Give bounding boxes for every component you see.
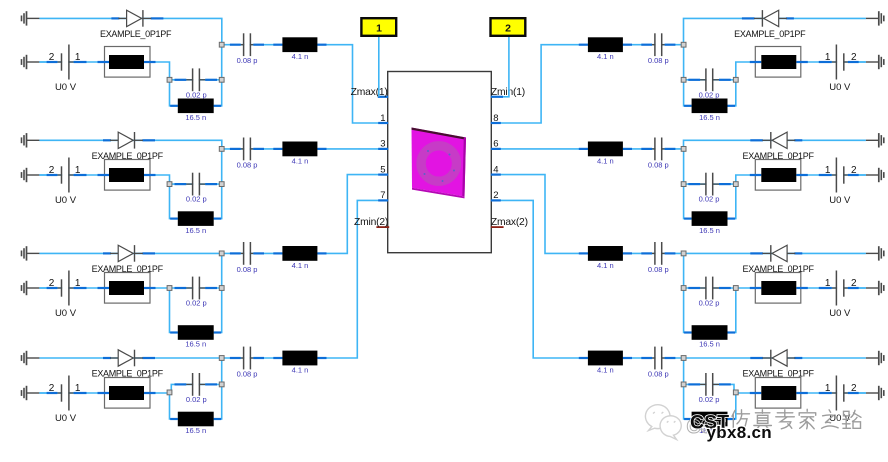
svg-text:0.02 p: 0.02 p xyxy=(186,299,207,308)
shunt inductor 16.5n row 2 left pin stub xyxy=(214,218,222,220)
capacitor 0.08p row 1 left xyxy=(230,33,264,56)
ground row 2 left battery branch xyxy=(22,168,40,182)
series block row 2 right pin stub right xyxy=(750,174,762,176)
battery pin stub row 2 right xyxy=(819,174,832,176)
series inductor 4.1n row 2 right pin stub xyxy=(623,148,632,150)
series inductor 4.1n row 1 right pin stub xyxy=(623,44,632,46)
svg-text:1: 1 xyxy=(376,22,382,34)
wire battery branch row 1 right xyxy=(736,62,866,80)
series block row 3 right pin stub right xyxy=(750,287,762,289)
svg-text:4.1 n: 4.1 n xyxy=(292,52,309,61)
svg-text:0.02 p: 0.02 p xyxy=(186,90,207,99)
junction node row 4 right xyxy=(681,356,686,361)
svg-text:0.08 p: 0.08 p xyxy=(648,56,669,65)
shunt inductor 16.5n row 4 right pin stub xyxy=(684,418,692,420)
series block row 4 right pin stub left xyxy=(796,392,808,394)
svg-text:ybx8.cn: ybx8.cn xyxy=(707,423,772,442)
wire diode branch row 1 left xyxy=(39,18,221,44)
series inductor 4.1n row 1 left pin stub xyxy=(317,44,326,46)
diode D EXAMPLE_0P1PF row 3 left xyxy=(103,245,155,262)
series block row 2 left body xyxy=(109,168,144,182)
series inductor 4.1n row 4 right pin stub xyxy=(623,357,632,359)
junction node row 3 right xyxy=(733,286,738,291)
block pin stub 2 right xyxy=(491,199,501,201)
capacitor 0.02p row 2 right xyxy=(688,173,731,196)
block pin stub Zmax(1) xyxy=(378,96,388,98)
wire column row 4 left xyxy=(214,358,222,419)
svg-text:EXAMPLE_0P1PF: EXAMPLE_0P1PF xyxy=(100,29,172,39)
series block row 2 right pin stub left xyxy=(796,174,808,176)
block pin stub 3 left xyxy=(378,148,388,150)
svg-text:4.1 n: 4.1 n xyxy=(597,156,614,165)
voltage source U0 row 4 right xyxy=(832,376,848,411)
series block row 2 right body xyxy=(761,168,796,182)
battery pin stub row 2 left xyxy=(74,174,87,176)
svg-text:16.5 n: 16.5 n xyxy=(185,226,206,235)
svg-text:U0 V: U0 V xyxy=(829,82,851,93)
shunt inductor 16.5n row 2 right pin stub xyxy=(728,218,736,220)
shunt inductor 16.5n row 2 left pin stub xyxy=(170,218,178,220)
series block row 1 left body xyxy=(109,55,144,69)
shunt inductor 16.5n row 2 right body xyxy=(692,211,728,226)
svg-text:4.1 n: 4.1 n xyxy=(597,366,614,375)
shunt inductor 16.5n row 3 left pin stub xyxy=(170,331,178,333)
series block row 2 left pin stub right xyxy=(144,174,156,176)
svg-text:0.02 p: 0.02 p xyxy=(699,195,720,204)
unconnected pin Zmax(2) xyxy=(491,226,504,228)
shunt inductor 16.5n row 4 right body xyxy=(692,412,728,427)
series inductor 4.1n row 1 right body xyxy=(588,37,623,52)
svg-text:0.02 p: 0.02 p xyxy=(699,299,720,308)
diode D EXAMPLE_0P1PF row 2 right xyxy=(750,132,802,149)
wire diode branch row 4 right xyxy=(684,357,866,359)
svg-text:4.1 n: 4.1 n xyxy=(292,366,309,375)
block pin stub 6 right xyxy=(491,148,501,150)
shunt inductor 16.5n row 4 left pin stub xyxy=(214,418,222,420)
wire column row 3 left xyxy=(214,253,222,332)
ground row 2 right battery branch xyxy=(866,168,884,182)
block pin stub 4 right xyxy=(491,174,501,176)
shunt inductor 16.5n row 2 left body xyxy=(178,211,214,226)
svg-text:16.5 n: 16.5 n xyxy=(699,340,720,349)
wire down to shunt inductor row 1 left xyxy=(170,80,178,106)
svg-text:0.02 p: 0.02 p xyxy=(186,395,207,404)
junction node row 1 left xyxy=(219,42,224,47)
ground row 1 left battery branch xyxy=(22,55,40,69)
series inductor 4.1n row 2 right body xyxy=(588,142,623,157)
series block row 3 left body xyxy=(109,281,144,295)
voltage source U0 row 2 left xyxy=(57,158,73,193)
diode D EXAMPLE_0P1PF row 4 left xyxy=(103,350,155,367)
wire battery branch row 2 right xyxy=(736,175,866,184)
battery pin stub row 1 left xyxy=(74,61,87,63)
svg-text:5: 5 xyxy=(380,164,385,175)
wire series branch row 1 left to pin xyxy=(222,45,388,123)
wire series branch row 1 right to pin xyxy=(491,45,684,123)
wire port 2 xyxy=(503,36,509,97)
ground row 1 right diode branch xyxy=(866,11,884,25)
battery pin stub row 4 right xyxy=(819,392,832,394)
junction node row 2 left xyxy=(219,182,224,187)
series block row 4 left pin stub right xyxy=(144,392,156,394)
shunt inductor 16.5n row 1 left pin stub xyxy=(170,105,178,107)
wire jog to cap row 4 right xyxy=(684,384,736,393)
shunt inductor 16.5n row 3 right body xyxy=(692,325,728,340)
diode D EXAMPLE_0P1PF row 1 left xyxy=(111,10,163,27)
series inductor 4.1n row 3 right body xyxy=(588,246,623,261)
shunt inductor 16.5n row 2 right pin stub xyxy=(684,218,692,220)
diode D EXAMPLE_0P1PF row 4 right xyxy=(750,350,802,367)
wire diode branch row 1 right xyxy=(684,18,866,44)
battery pin stub row 1 left xyxy=(47,61,58,63)
wire down to shunt inductor row 3 right xyxy=(728,288,736,333)
svg-text:4.1 n: 4.1 n xyxy=(292,156,309,165)
ground row 3 right battery branch xyxy=(866,281,884,295)
shunt inductor 16.5n row 1 left pin stub xyxy=(214,105,222,107)
junction node row 2 left xyxy=(167,182,172,187)
svg-text:4: 4 xyxy=(493,164,498,175)
capacitor 0.02p row 4 left xyxy=(175,373,218,396)
wire battery branch row 3 left xyxy=(39,287,221,289)
svg-text:4.1 n: 4.1 n xyxy=(597,261,614,270)
junction node row 4 left xyxy=(167,390,172,395)
svg-text:U0 V: U0 V xyxy=(829,308,851,319)
series block row 4 right outer box xyxy=(755,378,801,409)
ground row 2 right diode branch xyxy=(866,133,884,147)
battery pin stub row 4 left xyxy=(47,392,58,394)
capacitor 0.02p row 1 left xyxy=(175,68,218,91)
wire diode branch row 4 left xyxy=(39,357,221,359)
series block row 1 left pin stub left xyxy=(98,61,110,63)
wire cap branch row 1 left xyxy=(170,79,222,81)
wire column row 1 left xyxy=(214,45,222,106)
wire diode branch row 2 right xyxy=(684,140,866,149)
wire series branch row 4 right to pin xyxy=(491,200,684,358)
wire cap branch row 2 left xyxy=(170,183,222,185)
series inductor 4.1n row 4 right pin stub xyxy=(579,357,588,359)
junction node row 1 right xyxy=(681,77,686,82)
wire battery branch row 4 right xyxy=(736,392,866,394)
svg-text:4.1 n: 4.1 n xyxy=(292,261,309,270)
battery pin stub row 3 left xyxy=(47,287,58,289)
block pin stub 5 left xyxy=(378,174,388,176)
shunt inductor 16.5n row 3 right pin stub xyxy=(728,331,736,333)
shunt inductor 16.5n row 3 right pin stub xyxy=(684,331,692,333)
capacitor 0.08p row 3 left xyxy=(230,242,264,265)
battery pin stub row 3 right xyxy=(819,287,832,289)
series block row 2 left outer box xyxy=(105,160,151,191)
svg-text:U0 V: U0 V xyxy=(55,308,77,319)
junction node row 3 left xyxy=(167,286,172,291)
block pin stub 1 left xyxy=(378,122,388,124)
series inductor 4.1n row 4 left pin stub xyxy=(273,357,282,359)
voltage source U0 row 4 left xyxy=(57,376,73,411)
wire series branch row 3 left to pin xyxy=(222,175,388,254)
svg-text:1: 1 xyxy=(380,113,385,124)
wire down to shunt inductor row 3 left xyxy=(170,288,178,333)
series block row 1 right body xyxy=(761,55,796,69)
wire series branch row 4 left to pin xyxy=(222,200,388,358)
shunt inductor 16.5n row 4 left pin stub xyxy=(170,418,178,420)
wire cap branch row 1 right xyxy=(684,79,736,81)
series inductor 4.1n row 3 right pin stub xyxy=(623,252,632,254)
svg-text:4.1 n: 4.1 n xyxy=(597,52,614,61)
svg-text:Zmax(1): Zmax(1) xyxy=(351,87,388,98)
junction node row 1 left xyxy=(167,77,172,82)
capacitor 0.08p row 4 right xyxy=(641,347,675,370)
svg-text:6: 6 xyxy=(493,139,498,150)
series inductor 4.1n row 4 left pin stub xyxy=(317,357,326,359)
series block row 3 left outer box xyxy=(105,273,151,304)
wire column row 3 right xyxy=(684,253,692,332)
svg-text:U0 V: U0 V xyxy=(55,82,77,93)
diode D EXAMPLE_0P1PF row 1 right xyxy=(742,10,794,27)
series block row 1 left pin stub right xyxy=(144,61,156,63)
shunt inductor 16.5n row 1 right pin stub xyxy=(684,105,692,107)
series block row 3 right outer box xyxy=(755,273,801,304)
svg-text:0.08 p: 0.08 p xyxy=(648,160,669,169)
series block row 1 left outer box xyxy=(105,47,151,78)
series inductor 4.1n row 4 right body xyxy=(588,351,623,366)
external port 2 xyxy=(491,18,526,36)
svg-text:U0 V: U0 V xyxy=(55,413,77,424)
capacitor 0.02p row 3 right xyxy=(688,277,731,300)
watermark wechat bubbles xyxy=(645,405,681,440)
series inductor 4.1n row 2 right pin stub xyxy=(579,148,588,150)
capacitor 0.08p row 2 right xyxy=(641,138,675,161)
series block row 4 right body xyxy=(761,386,796,400)
svg-text:0.08 p: 0.08 p xyxy=(648,265,669,274)
voltage source U0 row 1 right xyxy=(832,45,848,80)
wire down to shunt inductor row 2 left xyxy=(170,184,178,219)
series inductor 4.1n row 3 left pin stub xyxy=(273,252,282,254)
svg-text:2: 2 xyxy=(505,22,511,34)
series inductor 4.1n row 1 left pin stub xyxy=(273,44,282,46)
battery pin stub row 2 right xyxy=(848,174,859,176)
svg-text:0.08 p: 0.08 p xyxy=(237,160,258,169)
series inductor 4.1n row 2 left pin stub xyxy=(273,148,282,150)
wire column row 4 right xyxy=(684,358,692,419)
capacitor 0.08p row 4 left xyxy=(230,347,264,370)
wire diode branch row 2 left xyxy=(39,140,221,149)
ground row 2 left diode branch xyxy=(22,133,40,147)
svg-text:0.08 p: 0.08 p xyxy=(237,370,258,379)
svg-text:16.5 n: 16.5 n xyxy=(699,113,720,122)
junction node row 4 right xyxy=(681,382,686,387)
series block row 3 left pin stub left xyxy=(98,287,110,289)
capacitor 0.08p row 1 right xyxy=(641,33,675,56)
ground row 1 right battery branch xyxy=(866,55,884,69)
ground row 3 right diode branch xyxy=(866,246,884,260)
capacitor 0.02p row 3 left xyxy=(175,277,218,300)
wire column row 2 left xyxy=(214,149,222,219)
shunt inductor 16.5n row 1 right body xyxy=(692,99,728,114)
battery pin stub row 4 right xyxy=(848,392,859,394)
block pin stub 8 right xyxy=(491,122,501,124)
series inductor 4.1n row 3 right pin stub xyxy=(579,252,588,254)
svg-text:3: 3 xyxy=(380,139,385,150)
wire series branch row 3 right to pin xyxy=(491,175,684,254)
block pin stub Zmin(1) xyxy=(491,96,503,98)
svg-text:EXAMPLE_0P1PF: EXAMPLE_0P1PF xyxy=(734,29,806,39)
series block row 4 left body xyxy=(109,386,144,400)
series inductor 4.1n row 1 left body xyxy=(282,37,317,52)
wire down to shunt inductor row 4 left xyxy=(170,393,178,419)
svg-text:7: 7 xyxy=(380,190,385,201)
svg-text:0.08 p: 0.08 p xyxy=(237,265,258,274)
series block row 3 right pin stub left xyxy=(796,287,808,289)
series block row 4 left outer box xyxy=(105,378,151,409)
shunt inductor 16.5n row 4 right pin stub xyxy=(728,418,736,420)
wire diode branch row 3 right xyxy=(684,252,866,254)
series inductor 4.1n row 4 left body xyxy=(282,351,317,366)
series inductor 4.1n row 2 left body xyxy=(282,142,317,157)
svg-text:0.08 p: 0.08 p xyxy=(648,370,669,379)
wire battery branch row 3 right xyxy=(684,287,866,289)
unconnected pin Zmin(2) xyxy=(376,226,389,228)
series inductor 4.1n row 2 left pin stub xyxy=(317,148,326,150)
series inductor 4.1n row 3 left pin stub xyxy=(317,252,326,254)
capacitor 0.08p row 2 left xyxy=(230,138,264,161)
series block row 3 left pin stub right xyxy=(144,287,156,289)
battery pin stub row 1 right xyxy=(819,61,832,63)
series block row 3 right body xyxy=(761,281,796,295)
svg-text:Zmax(2): Zmax(2) xyxy=(491,217,528,228)
junction node row 2 right xyxy=(681,182,686,187)
battery pin stub row 2 left xyxy=(47,174,58,176)
svg-text:16.5 n: 16.5 n xyxy=(185,426,206,435)
junction node row 1 right xyxy=(681,42,686,47)
wire battery branch row 4 left xyxy=(39,392,169,394)
wire down to shunt inductor row 1 right xyxy=(728,80,736,106)
svg-text:0.02 p: 0.02 p xyxy=(699,395,720,404)
junction node row 3 left xyxy=(219,286,224,291)
svg-text:8: 8 xyxy=(493,113,498,124)
svg-text:16.5 n: 16.5 n xyxy=(185,113,206,122)
junction node row 2 left xyxy=(219,147,224,152)
wire diode branch row 3 left xyxy=(39,252,221,254)
series block row 1 right pin stub right xyxy=(750,61,762,63)
wire series branch row 2 right to pin xyxy=(491,148,684,150)
capacitor 0.02p row 4 right xyxy=(688,373,731,396)
ground row 4 right battery branch xyxy=(866,386,884,400)
svg-text:U0 V: U0 V xyxy=(55,195,77,206)
external port 1 xyxy=(361,18,396,36)
ground row 1 left diode branch xyxy=(22,11,40,25)
wire battery branch row 2 left xyxy=(39,175,169,184)
shunt inductor 16.5n row 4 left body xyxy=(178,412,214,427)
wire cap branch row 2 right xyxy=(684,183,736,185)
ground row 4 right diode branch xyxy=(866,351,884,365)
shunt inductor 16.5n row 3 left body xyxy=(178,325,214,340)
junction node row 2 right xyxy=(681,147,686,152)
series block row 2 right outer box xyxy=(755,160,801,191)
battery pin stub row 1 right xyxy=(848,61,859,63)
svg-text:U0 V: U0 V xyxy=(829,195,851,206)
wire battery branch row 1 left xyxy=(39,62,169,80)
antenna block U1 (CST MWS schematic block) xyxy=(388,72,492,253)
series block row 1 right pin stub left xyxy=(796,61,808,63)
svg-text:0.08 p: 0.08 p xyxy=(237,56,258,65)
ground row 4 left diode branch xyxy=(22,351,40,365)
voltage source U0 row 3 right xyxy=(832,271,848,306)
wire down to shunt inductor row 2 right xyxy=(728,184,736,219)
series block row 1 right outer box xyxy=(755,47,801,78)
series block row 4 right pin stub right xyxy=(750,392,762,394)
series block row 4 left pin stub left xyxy=(98,392,110,394)
shunt inductor 16.5n row 3 left pin stub xyxy=(214,331,222,333)
junction node row 3 right xyxy=(681,286,686,291)
junction node row 4 left xyxy=(219,356,224,361)
svg-text:16.5 n: 16.5 n xyxy=(185,340,206,349)
voltage source U0 row 3 left xyxy=(57,271,73,306)
watermark chinese characters (vector strokes) xyxy=(732,409,861,430)
capacitor 0.02p row 1 right xyxy=(688,68,731,91)
series inductor 4.1n row 1 right pin stub xyxy=(579,44,588,46)
voltage source U0 row 2 right xyxy=(832,158,848,193)
wire jog to cap row 4 left xyxy=(170,384,222,393)
shunt inductor 16.5n row 1 right pin stub xyxy=(728,105,736,107)
patch antenna 3D preview xyxy=(412,128,467,199)
svg-text:16.5 n: 16.5 n xyxy=(699,226,720,235)
svg-text:Zmin(2): Zmin(2) xyxy=(354,217,388,228)
series inductor 4.1n row 3 left body xyxy=(282,246,317,261)
junction node row 1 left xyxy=(219,77,224,82)
ground row 4 left battery branch xyxy=(22,386,40,400)
series block row 2 left pin stub left xyxy=(98,174,110,176)
capacitor 0.08p row 3 right xyxy=(641,242,675,265)
wire column row 1 right xyxy=(684,45,692,106)
battery pin stub row 4 left xyxy=(74,392,87,394)
voltage source U0 row 1 left xyxy=(57,45,73,80)
svg-text:0.02 p: 0.02 p xyxy=(186,195,207,204)
junction node row 4 right xyxy=(733,390,738,395)
junction node row 2 right xyxy=(733,182,738,187)
junction node row 3 left xyxy=(219,251,224,256)
wire series branch row 2 left to pin xyxy=(222,148,388,150)
diode D EXAMPLE_0P1PF row 2 left xyxy=(103,132,155,149)
battery pin stub row 3 right xyxy=(848,287,859,289)
junction node row 1 right xyxy=(733,77,738,82)
diode D EXAMPLE_0P1PF row 3 right xyxy=(750,245,802,262)
ground row 3 left battery branch xyxy=(22,281,40,295)
junction node row 4 left xyxy=(219,382,224,387)
ground row 3 left diode branch xyxy=(22,246,40,260)
wire down to shunt inductor row 4 right xyxy=(728,393,736,419)
shunt inductor 16.5n row 1 left body xyxy=(178,99,214,114)
wire port 1 xyxy=(378,36,380,97)
capacitor 0.02p row 2 left xyxy=(175,173,218,196)
block pin stub 7 left xyxy=(378,199,388,201)
svg-text:0.02 p: 0.02 p xyxy=(699,90,720,99)
battery pin stub row 3 left xyxy=(74,287,87,289)
wire column row 2 right xyxy=(684,149,692,219)
svg-text:2: 2 xyxy=(493,190,498,201)
junction node row 3 right xyxy=(681,251,686,256)
